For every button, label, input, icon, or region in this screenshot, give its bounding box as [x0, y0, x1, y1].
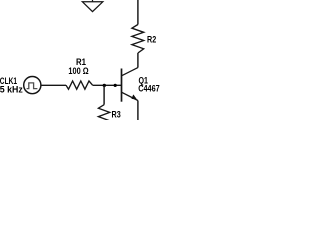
resistor R3 — [98, 105, 109, 121]
wire: CLK1 to R1 — [41, 84, 66, 86]
power symbol (inverted open triangle) — [82, 0, 102, 12]
wire: Q1 emitter down to edge — [137, 101, 139, 121]
square-wave glyph — [27, 83, 38, 89]
svg-text:5 kHz: 5 kHz — [0, 84, 23, 94]
transistor Q1: collector diagonal — [122, 68, 138, 76]
junction node (base wire) — [114, 84, 117, 87]
wire: R1 to Q1 base — [93, 84, 121, 86]
transistor Q1: emitter arrowhead — [132, 95, 137, 100]
svg-text:C4467: C4467 — [138, 84, 160, 94]
junction node (base wire / R3 branch) — [103, 84, 106, 87]
svg-text:100 Ω: 100 Ω — [68, 66, 88, 76]
svg-text:R2: R2 — [147, 35, 156, 45]
resistor R2 — [132, 25, 144, 54]
transistor Q1: emitter diagonal — [122, 92, 138, 100]
source CLK1 (square-wave generator) — [24, 77, 41, 94]
svg-text:R3: R3 — [112, 110, 121, 120]
wire: junction down to R3 — [103, 85, 105, 104]
wire: top rail to R2 — [137, 0, 139, 25]
wire: R2 to Q1 collector corner — [137, 53, 139, 68]
transistor Q1 (NPN): base bar — [121, 69, 123, 102]
resistor R1 — [66, 81, 93, 89]
